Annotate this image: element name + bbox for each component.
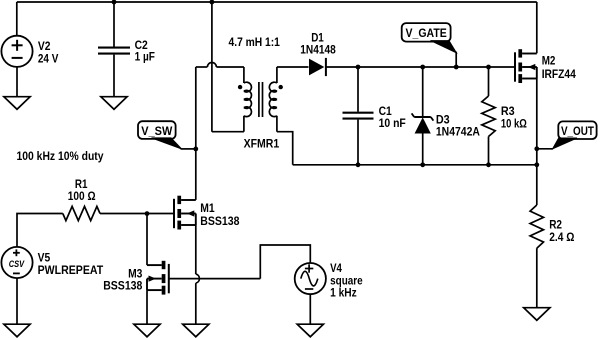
junction dot R3 bottom <box>486 162 491 167</box>
value 1N4148 <box>300 43 336 57</box>
wire transformer primary feed (top rail to primary bottom) <box>211 2 213 132</box>
voltage source V4 square <box>295 263 326 294</box>
wire V5 bottom <box>16 278 18 324</box>
junction dot gate node <box>145 211 150 216</box>
value square <box>330 273 363 287</box>
ground C2 <box>101 97 127 110</box>
mosfet M1 BSS138 <box>174 196 196 230</box>
svg-text:1 µF: 1 µF <box>135 49 155 63</box>
junction dot D3 top <box>420 65 425 70</box>
junction dot primary feed/top rail <box>210 0 215 4</box>
svg-text:100 Ω: 100 Ω <box>68 189 96 203</box>
phase dot secondary <box>279 85 283 89</box>
wire V5 to R1 <box>17 214 63 247</box>
wire V4 bottom <box>309 294 311 324</box>
wire primary top to V_SW branch (hops over feed wire) <box>196 63 244 84</box>
svg-text:BSS138: BSS138 <box>200 214 239 228</box>
wire M3 drain to gate node <box>146 214 148 266</box>
svg-text:4.7 mH 1:1: 4.7 mH 1:1 <box>229 35 281 49</box>
label M1 <box>200 201 215 215</box>
svg-text:M1: M1 <box>200 201 215 215</box>
label V2 <box>38 39 51 53</box>
label XFMR1 <box>244 137 280 151</box>
junction dot V_OUT tap <box>534 146 539 151</box>
phase dot primary <box>238 85 242 89</box>
voltage source V5 PWLREPEAT <box>1 247 32 278</box>
wire V2 top <box>16 2 18 36</box>
wire V2 bottom <box>16 67 18 97</box>
junction dot output rail <box>534 162 539 167</box>
label C1 <box>379 104 392 118</box>
svg-text:BSS138: BSS138 <box>103 278 142 292</box>
wire secondary top to D1 <box>277 66 309 68</box>
wire M2 drain from top rail <box>536 2 538 53</box>
wire V_GATE rail (D1 cathode to M2 gate) <box>326 66 515 68</box>
wire primary bottom <box>212 131 244 133</box>
wire M1 source down (hops over M3 gate wire) <box>196 225 200 324</box>
mosfet M2 IRFZ44 <box>515 49 537 83</box>
value BSS138 (M3) <box>103 278 142 292</box>
svg-text:10 nF: 10 nF <box>379 116 406 130</box>
svg-text:24 V: 24 V <box>38 52 59 66</box>
value 1 µF <box>135 49 155 63</box>
node flag V_OUT <box>537 121 597 148</box>
svg-text:V_OUT: V_OUT <box>561 124 595 138</box>
junction dot R3 top <box>486 65 491 70</box>
svg-text:M2: M2 <box>542 53 556 67</box>
value 1N4742A <box>436 125 480 139</box>
svg-text:1N4148: 1N4148 <box>300 43 336 57</box>
ground R2 <box>524 308 550 321</box>
diode D1 <box>309 58 326 76</box>
label V5 <box>38 251 51 265</box>
resistor R1 <box>63 206 100 220</box>
label 4.7 mH 1:1 <box>229 35 281 49</box>
value 2.4 Ω <box>549 230 575 244</box>
ground V5 <box>4 324 30 337</box>
label C2 <box>135 38 148 52</box>
svg-text:XFMR1: XFMR1 <box>244 137 280 151</box>
wire top rail +24V <box>17 1 537 3</box>
label R3 <box>501 104 515 118</box>
value BSS138 (M1) <box>200 214 239 228</box>
svg-text:1N4742A: 1N4742A <box>436 125 480 139</box>
value 1 kHz <box>330 286 357 300</box>
svg-text:2.4 Ω: 2.4 Ω <box>549 230 575 244</box>
label M2 <box>542 53 556 67</box>
zener diode D3 <box>412 67 434 165</box>
wire output rail <box>293 164 537 166</box>
voltage source V2 <box>1 36 32 67</box>
wire M3 gate to V4 <box>169 245 310 279</box>
svg-text:100 kHz 10% duty: 100 kHz 10% duty <box>17 149 104 163</box>
wire M2 source down to R2 <box>536 79 538 206</box>
ground M3 <box>134 324 160 337</box>
resistor R2 <box>530 205 543 308</box>
value 10 kΩ <box>501 116 527 130</box>
svg-text:PWLREPEAT: PWLREPEAT <box>38 263 104 277</box>
svg-text:CSV: CSV <box>9 259 25 270</box>
value 10 nF <box>379 116 406 130</box>
svg-text:V_SW: V_SW <box>141 124 173 138</box>
capacitor C1 <box>343 67 374 165</box>
junction dot V_GATE tap <box>454 65 459 70</box>
value 24 V <box>38 52 59 66</box>
wire C2 top <box>113 2 115 47</box>
junction dot D3 bottom <box>420 162 425 167</box>
svg-text:V_GATE: V_GATE <box>406 26 447 40</box>
junction dot C1 top <box>356 65 361 70</box>
junction dot C2/top rail <box>112 0 117 4</box>
node flag V_GATE <box>402 23 457 67</box>
ground V2 <box>4 97 30 110</box>
svg-text:10 kΩ: 10 kΩ <box>501 116 527 130</box>
annotation 100 kHz 10% duty <box>17 149 104 163</box>
transformer XFMR1 secondary winding <box>269 67 277 132</box>
wire V_SW vertical (primary top to M1 drain) <box>195 67 197 200</box>
label R1 <box>75 177 88 191</box>
label D3 <box>436 113 450 127</box>
label D1 <box>311 31 324 45</box>
value IRFZ44 <box>542 67 576 81</box>
junction dot C1 bottom <box>356 162 361 167</box>
capacitor C2 <box>98 48 130 97</box>
svg-text:1 kHz: 1 kHz <box>330 286 357 300</box>
node flag V_SW <box>138 121 196 149</box>
mosfet M3 BSS138 <box>147 261 169 295</box>
wire secondary bottom step <box>277 132 293 165</box>
value 100 Ω <box>68 189 96 203</box>
label V4 <box>330 261 342 275</box>
value PWLREPEAT <box>38 263 104 277</box>
ground M1 <box>183 324 209 337</box>
label R2 <box>549 218 562 232</box>
wire M3 source down <box>146 290 148 324</box>
junction dot V_SW <box>193 147 198 152</box>
transformer core <box>259 82 263 117</box>
resistor R3 <box>482 67 495 165</box>
ground V4 <box>297 324 323 337</box>
wire R1 to M1 gate <box>100 213 174 215</box>
label M3 <box>128 267 143 281</box>
transformer XFMR1 primary winding <box>244 82 252 132</box>
svg-text:IRFZ44: IRFZ44 <box>542 67 576 81</box>
